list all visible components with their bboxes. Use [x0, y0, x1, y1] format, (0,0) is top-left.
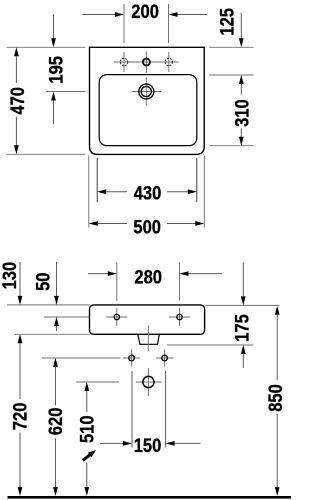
svg-text:125: 125 — [217, 8, 239, 36]
dimension 195 (rim to drain center) — [46, 14, 68, 124]
extension line body bottom left — [14, 333, 90, 335]
inner basin outline — [99, 75, 197, 146]
svg-text:195: 195 — [46, 56, 68, 84]
svg-text:720: 720 — [10, 403, 32, 431]
basin body (front view) — [90, 305, 205, 334]
dimension 850 (floor to rim) — [265, 306, 287, 496]
extension line for 510 — [76, 381, 119, 383]
svg-text:130: 130 — [0, 262, 21, 290]
dimension 200 (faucet hole spacing) — [82, 1, 207, 43]
extension line for 620 — [42, 357, 121, 359]
right fixing bolt hole centerlines — [156, 357, 173, 359]
floor line — [8, 496, 292, 499]
centerline through tailpiece — [147, 326, 149, 352]
center faucet hole centerlines — [134, 61, 159, 63]
extension line basin bottom right — [209, 145, 253, 147]
svg-text:150: 150 — [134, 435, 162, 457]
extension line sink bottom left — [7, 153, 86, 155]
right faucet knockout centerlines — [159, 61, 179, 63]
extension line drain center left — [46, 91, 85, 93]
dimension 720 (floor to body bottom) — [10, 334, 32, 496]
svg-text:620: 620 — [45, 408, 67, 436]
dimension 470 (overall depth) — [7, 47, 29, 154]
left fixing bolt hole centerlines — [123, 357, 140, 359]
svg-text:430: 430 — [134, 183, 162, 205]
svg-text:510: 510 — [77, 415, 99, 443]
drain tailpiece — [138, 334, 160, 344]
left mounting hole — [114, 314, 119, 319]
left mounting hole centerlines — [106, 316, 127, 318]
svg-text:850: 850 — [265, 384, 287, 412]
right fixing bolt hole — [162, 355, 168, 361]
left fixing bolt hole — [129, 355, 135, 361]
extension line rim right — [209, 46, 253, 48]
dimension 310 (basin depth) — [232, 75, 254, 146]
extension line trap outlet right — [167, 344, 254, 346]
right mounting hole centerlines — [169, 316, 190, 318]
dimension 500 (overall width) — [89, 156, 205, 239]
svg-text:500: 500 — [133, 216, 161, 238]
adjustable-direction arrow — [83, 450, 96, 460]
center faucet hole — [143, 59, 150, 66]
svg-text:200: 200 — [131, 1, 159, 23]
centerline through wall drain — [147, 368, 149, 396]
dimension 125 (rim to basin edge) — [217, 8, 244, 47]
dimension 175 (rim to trap outlet) — [232, 263, 254, 369]
dimension 50 (rim to mounting holes) — [32, 262, 59, 331]
drain centerlines — [132, 91, 162, 93]
extension line body top left — [7, 304, 90, 306]
right mounting hole — [177, 314, 182, 319]
wall drain outlet — [143, 376, 154, 387]
dimension 510 (floor to drain outlet) — [77, 382, 99, 496]
extension line mounting holes left — [44, 316, 90, 318]
sink outer outline (top view) — [90, 47, 205, 154]
svg-text:470: 470 — [7, 87, 29, 115]
extension line rim left — [7, 46, 86, 48]
dimension 150 (bolt hole spacing) — [100, 371, 200, 457]
svg-text:50: 50 — [32, 273, 54, 291]
extension line basin top right — [209, 74, 253, 76]
svg-text:310: 310 — [232, 99, 254, 127]
dimension 620 (floor to bolt holes) — [45, 358, 67, 496]
dimension 280 (mounting hole spacing) — [88, 262, 222, 301]
svg-text:175: 175 — [232, 314, 254, 342]
left faucet knockout centerlines — [114, 61, 134, 63]
svg-text:280: 280 — [134, 266, 162, 288]
dimension 130 (rim to body bottom) — [0, 262, 22, 305]
right faucet knockout (dashed) — [165, 58, 172, 65]
extension line body top right — [206, 304, 280, 306]
dimension 430 (basin width) — [97, 158, 197, 205]
left faucet knockout (dashed) — [120, 58, 127, 65]
wall drain outlet centerlines — [136, 381, 162, 383]
drain hole (double circle) — [139, 84, 154, 99]
